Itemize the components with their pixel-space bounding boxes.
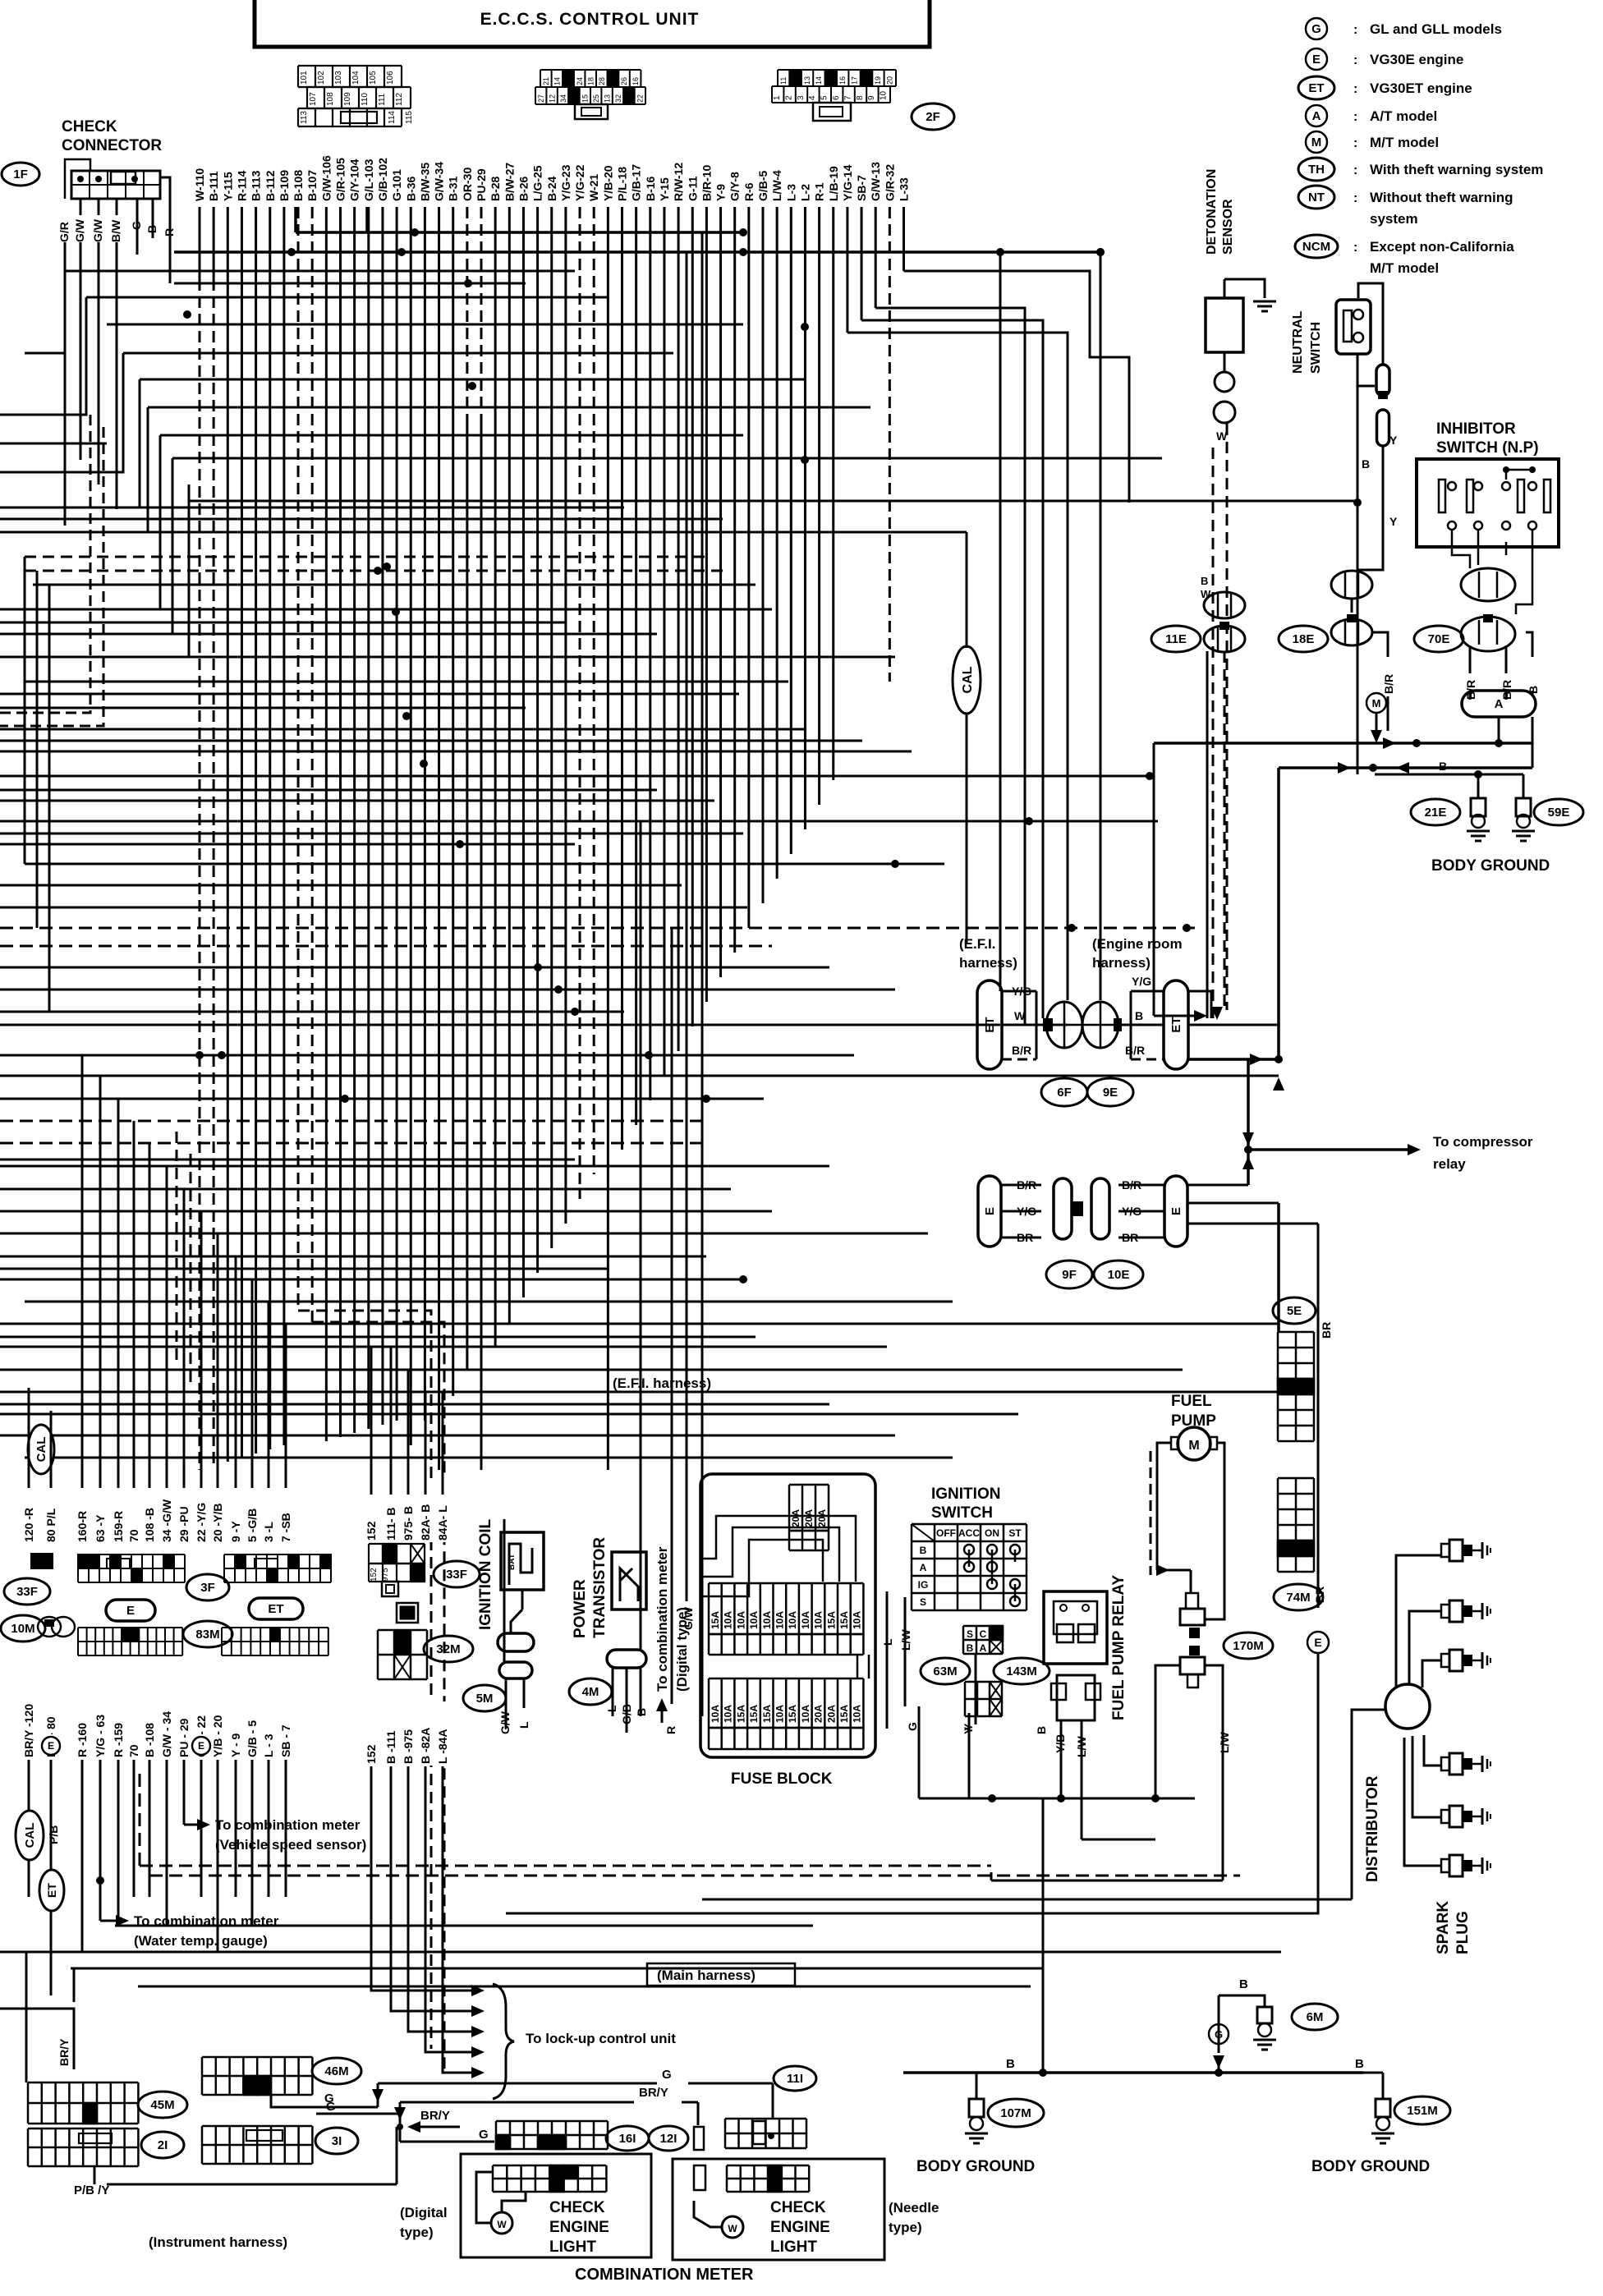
main harness lines <box>139 1774 141 1866</box>
svg-text:28: 28 <box>598 77 606 85</box>
svg-text:B: B <box>920 1545 927 1556</box>
svg-text:(Instrument harness): (Instrument harness) <box>149 2234 287 2250</box>
svg-text:G/L-103: G/L-103 <box>362 158 375 201</box>
svg-text:B: B <box>1439 760 1447 773</box>
svg-text:15A: 15A <box>761 1705 773 1723</box>
svg-text:Without theft warning: Without theft warning <box>1370 190 1513 205</box>
svg-text:NCM: NCM <box>1302 240 1330 254</box>
svg-text:R/W-12: R/W-12 <box>672 163 685 201</box>
svg-text:26: 26 <box>620 77 628 85</box>
wire <box>0 1403 829 1406</box>
fuse block <box>700 1474 875 1757</box>
svg-text:B: B <box>1135 1009 1143 1022</box>
svg-text:ET: ET <box>268 1602 283 1616</box>
svg-text:111: 111 <box>378 93 387 106</box>
svg-text:A/T model: A/T model <box>1370 108 1437 124</box>
pump coupling 1 <box>1186 1593 1198 1609</box>
svg-text:20A: 20A <box>816 1509 828 1527</box>
svg-text:BR/Y: BR/Y <box>639 2086 668 2100</box>
wire down to Y/G <box>999 252 1002 991</box>
wire from E down to coil <box>506 1653 1318 1913</box>
check connector wires <box>80 199 82 215</box>
svg-text:3 -L: 3 -L <box>262 1522 275 1542</box>
svg-text:7 -SB: 7 -SB <box>279 1513 292 1542</box>
connector <box>1377 410 1389 446</box>
wire to 5E <box>1277 1203 1280 1332</box>
wire <box>0 507 624 509</box>
svg-text:B/W-27: B/W-27 <box>503 163 516 201</box>
spark plug 6 <box>1441 1859 1449 1872</box>
relay connector below <box>1057 1675 1095 1720</box>
svg-text:E: E <box>1169 1207 1183 1215</box>
svg-text:12I: 12I <box>660 2132 677 2146</box>
svg-text:IGNITION: IGNITION <box>931 1486 1000 1503</box>
svg-text:G-11: G-11 <box>686 176 699 201</box>
svg-text:R-6: R-6 <box>742 182 756 201</box>
svg-text:B-112: B-112 <box>264 170 277 201</box>
legend symbol ET <box>1298 76 1334 99</box>
wire <box>160 434 743 437</box>
wire <box>0 518 723 521</box>
svg-text:BR/Y -120: BR/Y -120 <box>22 1704 35 1757</box>
svg-text:(Water temp. gauge): (Water temp. gauge) <box>134 1933 268 1949</box>
svg-text:4M: 4M <box>582 1685 599 1699</box>
wire <box>0 633 657 636</box>
svg-text:B/R: B/R <box>1122 1178 1141 1192</box>
svg-text:18E: 18E <box>1293 632 1315 646</box>
svg-text:9E: 9E <box>1103 1086 1118 1100</box>
plug 3 wire <box>1422 1660 1441 1688</box>
inhibitor connector wires <box>1452 530 1470 568</box>
svg-text:15A: 15A <box>710 1611 721 1629</box>
junction M <box>1366 693 1386 713</box>
svg-text:G/W: G/W <box>73 218 86 242</box>
svg-text:6F: 6F <box>1057 1086 1072 1100</box>
svg-text:G/R-105: G/R-105 <box>334 158 347 201</box>
svg-text:TRANSISTOR: TRANSISTOR <box>591 1537 609 1638</box>
svg-text:5: 5 <box>820 95 829 100</box>
svg-text:B/R: B/R <box>1125 1044 1145 1057</box>
svg-text:VG30E engine: VG30E engine <box>1370 52 1463 67</box>
legend symbol G <box>1306 18 1327 39</box>
wire <box>0 1233 928 1235</box>
svg-text:Y: Y <box>1389 434 1398 447</box>
connector 46M <box>243 2076 257 2095</box>
svg-text:B: B <box>1239 1977 1248 1991</box>
svg-text:152: 152 <box>365 1521 378 1541</box>
round connector pair <box>1046 1002 1082 1048</box>
svg-text:B-107: B-107 <box>305 170 319 201</box>
svg-text:2I: 2I <box>158 2138 168 2152</box>
svg-text:Y/G - 63: Y/G - 63 <box>94 1715 107 1757</box>
svg-text:Y/G: Y/G <box>1132 975 1151 988</box>
svg-text:B-28: B-28 <box>489 176 502 201</box>
svg-text:VG30ET engine: VG30ET engine <box>1370 80 1472 96</box>
svg-text:24: 24 <box>576 77 584 85</box>
svg-text:B-111: B-111 <box>207 171 220 201</box>
svg-text:102: 102 <box>317 71 326 85</box>
wire <box>0 1011 624 1013</box>
wire <box>861 320 1043 1018</box>
plug 1 wire <box>1396 1555 1441 1688</box>
connector 45M <box>83 2103 97 2124</box>
svg-text:B/R: B/R <box>1382 674 1395 694</box>
svg-text:Y: Y <box>1389 515 1398 528</box>
wire B <box>1042 1995 1045 2073</box>
wire G 2 <box>316 2113 400 2115</box>
svg-text:20 -Y/B: 20 -Y/B <box>211 1504 224 1542</box>
svg-text:Y/G: Y/G <box>1122 1205 1141 1218</box>
svg-text:SB - 7: SB - 7 <box>279 1724 292 1757</box>
plug 6 wire <box>1404 1738 1441 1866</box>
svg-text:22 -Y/G: 22 -Y/G <box>195 1503 208 1542</box>
svg-text:CAL: CAL <box>34 1437 48 1463</box>
svg-text:LIGHT: LIGHT <box>549 2239 596 2256</box>
wire down <box>1100 252 1102 1000</box>
CAL oval low <box>16 1811 44 1860</box>
wire Y <box>1357 446 1383 570</box>
pump wire right <box>1206 1443 1224 1619</box>
arrow BR/Y <box>407 2121 420 2133</box>
svg-text:ON: ON <box>985 1527 999 1539</box>
ignition switch table <box>911 1524 913 1610</box>
svg-text:25: 25 <box>592 94 600 103</box>
svg-text:10A: 10A <box>710 1705 721 1723</box>
svg-text:32: 32 <box>614 94 622 103</box>
wire <box>25 681 788 683</box>
dashed harness verticals <box>298 1311 431 2049</box>
wire <box>107 324 743 326</box>
svg-text:BR: BR <box>1017 1231 1033 1244</box>
wire <box>0 789 657 792</box>
svg-text:SWITCH: SWITCH <box>931 1504 993 1522</box>
svg-text:112: 112 <box>395 93 404 106</box>
wire <box>0 740 862 742</box>
svg-text:10A: 10A <box>748 1611 760 1629</box>
connector 1F label <box>2 163 39 186</box>
svg-text:975- B: 975- B <box>402 1506 415 1541</box>
legend symbol TH <box>1298 158 1334 181</box>
svg-text:1F: 1F <box>13 168 28 181</box>
svg-text:103: 103 <box>334 71 343 85</box>
check engine lamp <box>722 2216 743 2238</box>
svg-text:L-33: L-33 <box>898 177 911 201</box>
svg-text:2: 2 <box>784 95 793 100</box>
svg-text:80 P/L: 80 P/L <box>44 1508 57 1542</box>
wire BR/Y to 12I <box>400 2101 634 2104</box>
svg-text:10A: 10A <box>735 1611 746 1629</box>
svg-text:SPARK: SPARK <box>1435 1901 1452 1954</box>
svg-text::: : <box>1353 241 1357 255</box>
svg-text:10: 10 <box>880 90 889 100</box>
svg-text:With theft warning system: With theft warning system <box>1370 162 1543 177</box>
svg-text:10A: 10A <box>800 1611 811 1629</box>
lock-up arrow <box>452 2051 478 2054</box>
distributor <box>1385 1684 1430 1729</box>
bus junction dots <box>801 323 809 331</box>
wire to B/R <box>847 333 1068 1000</box>
svg-text:19: 19 <box>874 76 882 85</box>
wire to capsule <box>1358 283 1383 365</box>
wire B/W <box>116 242 118 509</box>
svg-text:15: 15 <box>581 94 590 103</box>
wire <box>0 1268 608 1270</box>
svg-text:CHECK: CHECK <box>62 118 117 135</box>
wire <box>0 1346 887 1348</box>
body ground bottom left <box>903 2071 1363 2074</box>
svg-text:S: S <box>920 1596 926 1608</box>
distributor feed <box>1352 1710 1385 1899</box>
pump coupling 2 <box>1189 1646 1200 1655</box>
legend symbol A <box>1306 105 1327 126</box>
svg-text:B -82A: B -82A <box>419 1728 432 1764</box>
svg-text:3I: 3I <box>332 2134 342 2148</box>
coupling wire right L/W <box>1205 1665 1223 1880</box>
svg-text:G: G <box>130 221 143 230</box>
wire down from junction line <box>1153 743 1155 1016</box>
svg-text:20A: 20A <box>790 1509 801 1527</box>
connector 16I <box>496 2135 510 2149</box>
svg-text:B: B <box>1006 2057 1015 2071</box>
lock-up arrow <box>452 2072 478 2074</box>
legend symbol NCM <box>1295 235 1338 258</box>
svg-text:(Needle: (Needle <box>889 2200 939 2216</box>
svg-text:10A: 10A <box>852 1611 863 1629</box>
svg-text:(Engine room: (Engine room <box>1092 936 1183 952</box>
svg-text:L/B-19: L/B-19 <box>827 166 840 201</box>
svg-text:59E: 59E <box>1548 806 1570 820</box>
svg-text:BR/Y: BR/Y <box>420 2109 450 2123</box>
wire <box>0 1159 575 1161</box>
wire B down <box>1206 651 1209 1018</box>
svg-text:CHECK: CHECK <box>549 2199 605 2216</box>
svg-text:B/W-35: B/W-35 <box>418 163 431 201</box>
mesh junction dots <box>183 310 191 319</box>
svg-text:3F: 3F <box>200 1581 215 1595</box>
svg-text:46M: 46M <box>324 2064 348 2078</box>
wires from mesh into label row <box>28 1388 30 1488</box>
svg-text:harness): harness) <box>959 955 1017 971</box>
svg-text:11: 11 <box>779 77 788 85</box>
connector grids row mid <box>31 1554 42 1568</box>
connector circles row (cross connectors) <box>1151 626 1201 652</box>
svg-text:10A: 10A <box>723 1611 734 1629</box>
svg-text:BR: BR <box>1122 1231 1138 1244</box>
svg-text:B/R: B/R <box>1017 1178 1036 1192</box>
wire G/W <box>80 242 82 460</box>
svg-text:BODY GROUND: BODY GROUND <box>1431 857 1550 875</box>
svg-text:108: 108 <box>326 92 335 106</box>
svg-text:W-21: W-21 <box>587 174 600 201</box>
svg-text:15A: 15A <box>735 1705 746 1723</box>
svg-text:B: B <box>967 1642 974 1654</box>
svg-text:SENSOR: SENSOR <box>1221 199 1235 255</box>
svg-text:ENGINE: ENGINE <box>549 2219 609 2236</box>
svg-text:21E: 21E <box>1425 806 1447 820</box>
wire <box>0 800 714 802</box>
wire to W <box>875 308 1025 1025</box>
svg-text:Except non-California: Except non-California <box>1370 239 1514 255</box>
long feeder verticals <box>503 1519 506 1663</box>
svg-text:B/W: B/W <box>109 219 122 242</box>
svg-text:W: W <box>1201 588 1211 600</box>
svg-text:M/T model: M/T model <box>1370 260 1439 276</box>
svg-text:Y-115: Y-115 <box>221 172 234 201</box>
svg-text:ET: ET <box>983 1017 997 1032</box>
svg-text:18: 18 <box>586 77 595 85</box>
svg-text:M/T model: M/T model <box>1370 135 1439 150</box>
svg-text:ST: ST <box>1008 1527 1022 1539</box>
S B A X grid <box>990 1626 1003 1640</box>
svg-text:COMBINATION METER: COMBINATION METER <box>575 2266 754 2284</box>
svg-text:Y-9: Y-9 <box>714 184 728 201</box>
svg-text:9: 9 <box>867 95 876 100</box>
svg-text:(E.F.I.: (E.F.I. <box>959 936 995 952</box>
wire down to junction <box>1277 768 1280 1059</box>
svg-text:R-1: R-1 <box>813 182 826 201</box>
svg-text:G/W-34: G/W-34 <box>433 162 446 201</box>
svg-text:CAL: CAL <box>961 666 975 693</box>
wire <box>0 820 1158 823</box>
svg-text:27: 27 <box>537 94 545 103</box>
svg-text:115: 115 <box>405 111 414 124</box>
fuel pump motor M <box>1178 1427 1210 1460</box>
svg-text:G: G <box>479 2128 489 2142</box>
svg-text:2F: 2F <box>926 110 940 124</box>
svg-text:45M: 45M <box>150 2098 174 2112</box>
svg-text:G/W: G/W <box>682 1606 695 1630</box>
wire BR/Y <box>0 2009 74 2069</box>
ET capsule right <box>1164 980 1188 1069</box>
svg-text:W-110: W-110 <box>193 168 206 201</box>
wire B/R riser <box>1247 1059 1250 1185</box>
svg-text:G: G <box>906 1722 919 1731</box>
svg-text:10A: 10A <box>774 1705 786 1723</box>
svg-text:5M: 5M <box>476 1692 494 1706</box>
svg-text:7: 7 <box>843 95 852 100</box>
svg-text:G: G <box>1311 22 1321 36</box>
svg-text:SB-7: SB-7 <box>855 175 868 201</box>
svg-text:10M: 10M <box>11 1622 34 1636</box>
second junction row <box>1279 766 1532 769</box>
svg-text:SWITCH (N.P): SWITCH (N.P) <box>1436 439 1539 457</box>
svg-text:G: G <box>662 2068 672 2082</box>
lamp wire <box>476 2172 493 2223</box>
svg-text:L: L <box>517 1721 531 1729</box>
pump wire left <box>1157 1443 1171 1570</box>
connector <box>1376 365 1389 396</box>
svg-text:74M: 74M <box>1286 1591 1310 1605</box>
1F bracket <box>65 159 90 199</box>
wire B/R lower <box>1187 1184 1248 1187</box>
lower vertical wires <box>28 1760 30 1897</box>
connector 11I <box>724 2119 727 2148</box>
wire <box>0 751 912 753</box>
dashed wire <box>1226 424 1229 1010</box>
wire <box>0 1256 706 1258</box>
spark plug 2 <box>1441 1605 1449 1618</box>
wire <box>0 693 739 696</box>
svg-text::: : <box>1353 163 1357 177</box>
svg-text:B-31: B-31 <box>447 176 460 201</box>
svg-text:ENGINE: ENGINE <box>770 2219 830 2236</box>
wire <box>33 584 756 586</box>
svg-text:E: E <box>1314 1636 1321 1649</box>
svg-text:L-2: L-2 <box>798 184 811 201</box>
svg-text:R: R <box>163 228 176 236</box>
svg-text:10E: 10E <box>1108 1268 1130 1282</box>
svg-text:C: C <box>980 1628 987 1640</box>
svg-text::: : <box>1353 110 1357 124</box>
svg-text:CONNECTOR: CONNECTOR <box>62 137 162 154</box>
svg-text:BODY GROUND: BODY GROUND <box>1311 2158 1430 2175</box>
CAL oval upper <box>28 1425 54 1474</box>
svg-text:SWITCH: SWITCH <box>1309 322 1323 374</box>
svg-text:A: A <box>1312 109 1321 123</box>
wire <box>0 1336 756 1339</box>
svg-text:relay: relay <box>1433 1156 1466 1172</box>
svg-text:P/B: P/B <box>47 1825 60 1844</box>
svg-text:20: 20 <box>886 76 894 85</box>
svg-text:Y/G-14: Y/G-14 <box>841 164 854 201</box>
svg-text:G: G <box>326 2100 336 2114</box>
svg-text:63 -Y: 63 -Y <box>94 1514 107 1542</box>
svg-text:Y - 9: Y - 9 <box>229 1733 242 1757</box>
svg-text:PU-29: PU-29 <box>475 168 488 201</box>
fuse row 2 <box>708 1678 710 1728</box>
svg-text:Y/G: Y/G <box>1012 985 1031 998</box>
svg-text:159-R: 159-R <box>112 1511 125 1542</box>
dashed wire <box>1224 651 1226 1010</box>
svg-text::: : <box>1353 23 1357 37</box>
svg-text:G/W - 34: G/W - 34 <box>160 1711 173 1757</box>
svg-text:B -111: B -111 <box>384 1730 397 1764</box>
wire to B <box>904 271 1130 503</box>
E capsule pair lower <box>978 1176 1001 1247</box>
svg-text:63M: 63M <box>933 1665 957 1678</box>
svg-text:B-109: B-109 <box>278 170 291 201</box>
wire <box>0 1075 1279 1077</box>
svg-text:DETONATION: DETONATION <box>1205 169 1219 255</box>
wire G/W <box>98 242 100 484</box>
svg-text:IG: IG <box>918 1579 929 1591</box>
wire G/R <box>64 242 67 526</box>
wire <box>0 1279 743 1281</box>
svg-text:8: 8 <box>856 95 865 100</box>
wire G from 46M <box>271 2096 378 2107</box>
svg-text:R -160: R -160 <box>76 1723 89 1757</box>
svg-text:E: E <box>198 1740 204 1752</box>
coupling wire left <box>1155 1665 1180 1798</box>
E.C.C.S. control unit box <box>255 0 930 47</box>
svg-text:G/B - 5: G/B - 5 <box>246 1720 259 1757</box>
left staircase wires <box>25 352 65 355</box>
svg-text:NEUTRAL: NEUTRAL <box>1291 310 1305 374</box>
svg-text:POWER: POWER <box>572 1579 589 1638</box>
wire <box>0 1165 829 1168</box>
svg-text:PLUG: PLUG <box>1454 1911 1472 1954</box>
svg-text:15A: 15A <box>825 1611 837 1629</box>
svg-text:To combination meter: To combination meter <box>655 1546 670 1692</box>
svg-text:E: E <box>126 1604 135 1618</box>
svg-text:10A: 10A <box>800 1705 811 1723</box>
svg-text:10A: 10A <box>761 1611 773 1629</box>
svg-text:FUEL PUMP RELAY: FUEL PUMP RELAY <box>1110 1575 1128 1720</box>
wire <box>0 728 805 731</box>
svg-text:L-3: L-3 <box>784 184 797 201</box>
svg-text:B-113: B-113 <box>250 170 263 201</box>
svg-text:82A- B: 82A- B <box>419 1504 432 1541</box>
